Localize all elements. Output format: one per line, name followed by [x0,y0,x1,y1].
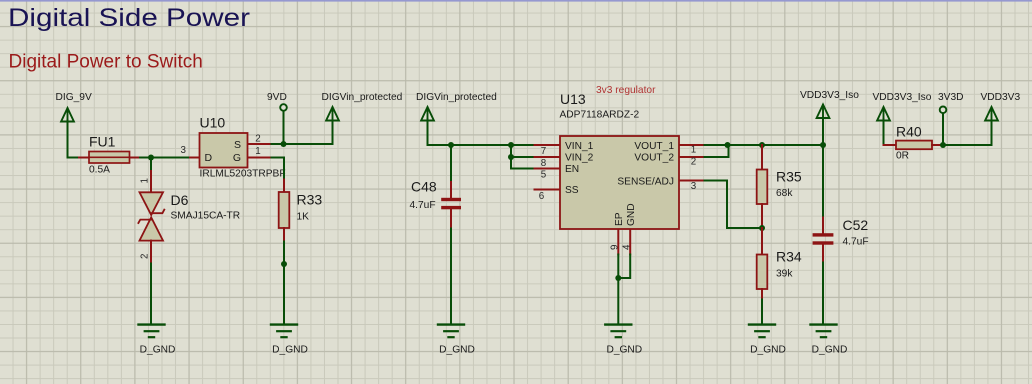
svg-text:6: 6 [539,191,545,202]
svg-text:SS: SS [565,185,579,196]
svg-text:C52: C52 [843,217,869,233]
power flag VDD3V3_Iso source [873,92,932,120]
svg-text:1: 1 [140,178,151,183]
junction divider node [759,225,765,231]
svg-text:3: 3 [691,181,697,192]
fuse FU1 [79,134,140,176]
svg-text:68k: 68k [776,188,793,199]
svg-text:VOUT_1: VOUT_1 [634,141,674,152]
svg-text:R33: R33 [297,192,323,208]
wire U10 G to R33 [272,158,285,180]
svg-text:5: 5 [541,169,547,180]
junction at FU1/D6 node [148,155,154,161]
svg-text:D: D [205,152,213,164]
junction at 9VD node [281,141,287,147]
mosfet U10 IRLML5203TRPBF [181,115,286,180]
wire SENSE/ADJ to divider [705,181,763,229]
junction VIN_1 branch [508,142,514,148]
svg-text:S: S [234,139,241,151]
resistor R33 1K [279,180,323,242]
svg-text:2: 2 [140,254,151,259]
svg-text:G: G [233,152,241,164]
TVS diode D6 SMAJ15CA-TR [138,171,240,264]
power flag VDD3V3_Iso [800,90,859,145]
svg-text:DIG_9V: DIG_9V [56,92,92,103]
wire DIGVin_protected to U13 VIN [428,119,512,145]
wire VOUT rail [705,144,824,146]
svg-text:C48: C48 [411,179,437,195]
wire C48 node down [450,145,452,182]
ground D_GND under R34 [749,325,786,356]
svg-text:4.7uF: 4.7uF [410,200,436,211]
svg-text:3v3 regulator: 3v3 regulator [596,85,656,96]
wire to EN [511,157,535,169]
svg-text:DIGVin_protected: DIGVin_protected [416,92,497,103]
power flag 9VD [267,92,287,144]
svg-text:VDD3V3_Iso: VDD3V3_Iso [873,92,932,103]
wire FU1 to U10 pin 3 [140,157,190,159]
junction at C48 node [448,142,454,148]
svg-text:SENSE/ADJ: SENSE/ADJ [617,176,674,187]
svg-text:9: 9 [609,245,620,250]
capacitor C52 4.7uF [813,217,869,263]
svg-text:8: 8 [541,158,547,169]
svg-text:1K: 1K [297,212,310,223]
ground D_GND under R33 [271,325,308,356]
wire R34 to ground [761,300,763,325]
svg-text:2: 2 [255,134,260,145]
svg-text:D6: D6 [171,192,189,208]
wire VIN branch down [510,145,512,157]
wire C52 node down [822,145,824,218]
power flag 3V3D [938,92,963,145]
svg-text:U10: U10 [200,115,226,131]
resistor R35 68k [757,145,802,228]
svg-text:FU1: FU1 [89,134,116,150]
junction VOUT_2 [725,142,731,148]
resistor R40 0R [884,124,944,162]
wire U13 EP to ground [617,255,619,325]
svg-text:EN: EN [565,164,579,175]
svg-text:R34: R34 [776,249,802,265]
svg-text:VOUT_2: VOUT_2 [634,153,674,164]
svg-text:SMAJ15CA-TR: SMAJ15CA-TR [171,211,241,222]
junction VIN_2 branch [508,154,514,160]
junction below R33 [281,261,287,267]
wire 9VD node to DIGVin_protected flag [284,121,333,145]
svg-text:1: 1 [255,146,260,157]
wire R33 to ground [283,242,285,325]
ground D_GND under U13 [605,325,642,356]
svg-text:Digital Power to Switch: Digital Power to Switch [9,52,203,73]
svg-text:EP: EP [614,212,625,226]
wire C52 to ground [822,263,824,325]
wire junction down to D6 [150,158,152,172]
svg-text:DIGVin_protected: DIGVin_protected [322,92,403,103]
wire C48 to ground [450,229,452,325]
svg-text:VIN_1: VIN_1 [565,141,594,152]
ground D_GND under D6 [139,325,176,356]
wire U13 GND to EP net [618,255,630,279]
power flag DIG_9V [56,92,92,121]
wire DIG_9V to FU1 [68,120,80,158]
svg-text:39k: 39k [776,269,793,280]
resistor R34 39k [757,228,802,300]
svg-text:R40: R40 [896,124,922,140]
wire D6 to ground [150,264,152,325]
junction EP/GND [615,275,621,281]
svg-text:GND: GND [626,203,637,226]
svg-text:3: 3 [181,145,187,156]
wire U10 S to 9VD node [272,143,284,145]
svg-text:VDD3V3: VDD3V3 [981,92,1021,103]
svg-text:Digital Side Power: Digital Side Power [8,4,250,32]
wire VDD3V3_Iso flag to R40 [883,119,885,145]
svg-text:U13: U13 [560,91,586,107]
power flag DIGVin_protected [322,92,403,120]
ground D_GND under C48 [438,325,475,356]
junction 3V3D node [940,142,946,148]
power flag VDD3V3 [981,92,1021,120]
wire to VIN_1 [511,144,535,146]
svg-text:VDD3V3_Iso: VDD3V3_Iso [800,90,859,101]
capacitor C48 4.7uF [410,179,462,229]
wire to VIN_2 [511,156,535,158]
svg-text:4.7uF: 4.7uF [843,237,869,248]
svg-text:3V3D: 3V3D [938,92,963,103]
power flag DIGVin_protected input [416,92,497,120]
regulator U13 ADP7118ARDZ-2 [535,85,705,255]
top window bar [0,0,1032,2]
junction C52 node [820,142,826,148]
wire VOUT_2 riser [705,145,729,157]
ground D_GND under C52 [811,325,848,356]
svg-text:4: 4 [621,244,632,250]
svg-text:R35: R35 [776,169,802,185]
svg-text:9VD: 9VD [267,92,287,103]
svg-text:0R: 0R [896,151,909,162]
svg-text:ADP7118ARDZ-2: ADP7118ARDZ-2 [560,110,640,121]
svg-text:VIN_2: VIN_2 [565,153,594,164]
svg-text:7: 7 [541,146,546,157]
svg-text:1: 1 [691,145,696,156]
svg-text:2: 2 [691,157,696,168]
junction R35 top [759,142,765,148]
wire 3V3D node to VDD3V3 flag [943,121,992,146]
svg-text:0.5A: 0.5A [89,165,110,176]
svg-text:IRLML5203TRPBF: IRLML5203TRPBF [200,169,286,180]
